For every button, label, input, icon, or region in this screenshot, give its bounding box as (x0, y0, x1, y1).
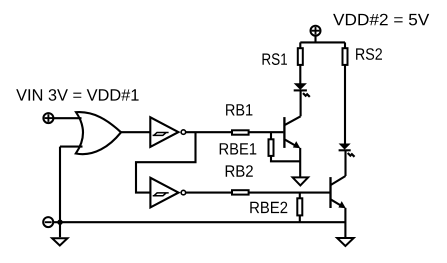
wire Q2 emitter down (344, 208, 346, 237)
terminal VIN+ (43, 113, 53, 123)
ground Q1 (293, 177, 309, 185)
resistor RS2 (343, 48, 348, 65)
bottom rail (60, 221, 345, 223)
wire RB2 to Q2 base (249, 192, 330, 194)
wire U2 output to RB1 (186, 131, 233, 133)
label RBE1 (220, 143, 257, 154)
hysteresis symbol U2 (153, 133, 169, 136)
resistor RB1 (232, 130, 249, 134)
ground Q2 (337, 238, 354, 246)
wire OR input 2 vertical (59, 147, 61, 223)
led D2 (339, 144, 355, 157)
inverter U3 (schmitt) (150, 178, 185, 208)
wire Q1 emitter down (299, 148, 301, 177)
transistor Q1 (284, 116, 300, 148)
wire RS1 to top rail (299, 42, 301, 48)
junction dot (57, 220, 62, 225)
terminal VDD#2 (311, 26, 321, 43)
wire VIN+ to OR input 1 (53, 117, 81, 119)
terminal VSS- (43, 217, 53, 227)
label RB1 (226, 104, 252, 115)
wire minus terminal to junction (53, 221, 60, 223)
top rail VDD#2 (300, 41, 345, 43)
resistor RB2 (232, 190, 249, 194)
label VIN 3V = VDD#1 (16, 89, 138, 101)
wire RS2 to top rail (344, 42, 346, 48)
label RB2 (226, 165, 253, 177)
wire OR output to inverter U2 (121, 131, 150, 133)
label RS1 (263, 53, 288, 65)
hysteresis symbol U3 (153, 193, 169, 196)
ground left (52, 238, 67, 245)
led D1 (294, 83, 310, 97)
wire feedback branch down (136, 132, 196, 192)
label RBE2 (250, 202, 287, 214)
label VDD#2 = 5V (333, 14, 429, 26)
resistor RBE2 (297, 193, 302, 223)
wire OR input 2 horizontal (60, 146, 83, 148)
resistor RBE1 (269, 132, 300, 161)
wire RS2 down to LED2 (344, 65, 346, 144)
wire U3 output to RB2 (186, 192, 233, 194)
wire junction to ground (59, 222, 61, 237)
label RS2 (356, 48, 382, 60)
or-gate U1 (76, 112, 121, 154)
transistor Q2 (331, 176, 346, 208)
wire Q1 collector up (300, 91, 302, 116)
wire LED2 to Q2 collector (344, 150, 346, 176)
inverter U2 (schmitt) (150, 117, 185, 147)
resistor RS1 (298, 48, 303, 65)
wire LED1 to RS1 (299, 65, 301, 84)
wire RB1 to Q1 base (249, 131, 284, 133)
